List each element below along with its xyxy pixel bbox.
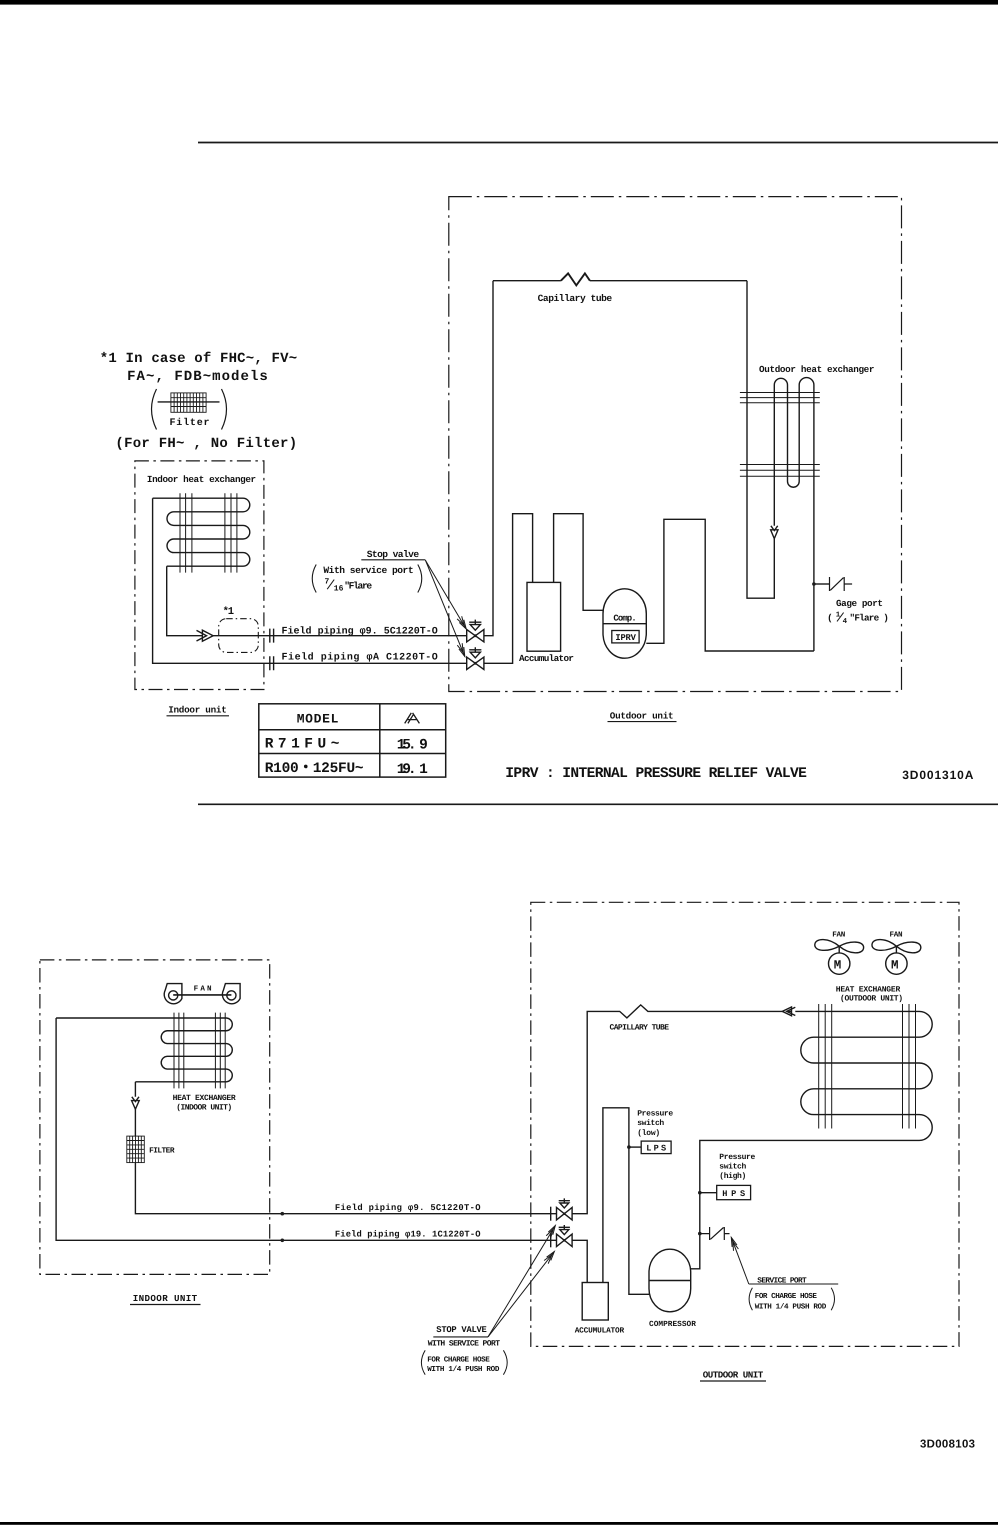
- gas pipe from coil to stop valve (upper figure): [153, 498, 467, 663]
- svg-text:FOR CHARGE HOSE: FOR CHARGE HOSE: [755, 1292, 818, 1301]
- top page border bar: [0, 0, 998, 5]
- filter legend hatched box: [171, 393, 206, 412]
- leader arrow to liquid stop valve (lower): [488, 1226, 555, 1337]
- outdoor unit label underline: [608, 721, 677, 723]
- svg-text:(OUTDOOR UNIT): (OUTDOOR UNIT): [840, 994, 903, 1003]
- model table row R71FU: [265, 737, 428, 754]
- flare tick liquid valve (lower): [550, 1207, 552, 1221]
- leader arrow to gas stop valve: [425, 560, 464, 656]
- IPRV text: [615, 633, 636, 643]
- indoor fan label: [194, 986, 212, 994]
- indoor unit dash-dot box (upper figure): [135, 461, 264, 690]
- compressor label (lower figure): [649, 1320, 696, 1329]
- section rule upper: [198, 142, 998, 144]
- IPRV box: [612, 631, 639, 643]
- flare joint ticks liquid line: [270, 629, 274, 643]
- with service port paren right: [418, 565, 422, 593]
- model table row R100-125FU: [265, 761, 428, 778]
- accumulator (upper figure): [527, 582, 561, 651]
- document number lower: [920, 1438, 975, 1450]
- stop valve note text: [427, 1355, 500, 1374]
- svg-text:1: 1: [836, 611, 841, 619]
- svg-text:(INDOOR UNIT): (INDOOR UNIT): [176, 1104, 232, 1113]
- accumulator (lower figure): [582, 1283, 608, 1321]
- svg-text:7: 7: [325, 578, 330, 587]
- gas pipe to accumulator (lower figure): [572, 1240, 587, 1282]
- svg-text:HEAT EXCHANGER: HEAT EXCHANGER: [173, 1094, 236, 1103]
- gage port label: [836, 598, 883, 609]
- indoor coil fins (lower figure): [174, 1013, 225, 1089]
- svg-text:MODEL: MODEL: [297, 712, 339, 727]
- svg-text:*1: *1: [223, 606, 235, 618]
- svg-text:WITH SERVICE PORT: WITH SERVICE PORT: [428, 1340, 500, 1349]
- svg-text:Outdoor unit: Outdoor unit: [610, 710, 674, 721]
- service port valve symbol: [698, 1227, 730, 1240]
- filter legend label: [170, 417, 210, 429]
- filter legend paren left: [152, 389, 157, 430]
- svg-text:Stop valve: Stop valve: [367, 549, 420, 560]
- stop valve label (upper figure): [367, 549, 420, 560]
- svg-text:Field piping φ9. 5C1220T-O: Field piping φ9. 5C1220T-O: [335, 1203, 481, 1213]
- svg-text:COMPRESSOR: COMPRESSOR: [649, 1320, 696, 1329]
- compressor label: [613, 613, 636, 623]
- indoor fan symbol: [164, 984, 240, 1004]
- svg-text:IPRV : INTERNAL PRESSURE RELIE: IPRV : INTERNAL PRESSURE RELIEF VALVE: [505, 766, 807, 782]
- outdoor fan 1: [815, 940, 864, 975]
- svg-text:M: M: [834, 958, 842, 972]
- gage port fraction slash: [837, 613, 844, 622]
- field piping gas label (lower figure): [335, 1230, 481, 1240]
- capillary tube label (lower figure): [610, 1024, 670, 1033]
- with service port paren left: [312, 565, 316, 593]
- capillary flow arrow: [782, 1007, 795, 1016]
- liquid stop valve (lower figure): [557, 1198, 573, 1220]
- svg-text:FAN: FAN: [832, 931, 845, 939]
- stop valve underline (lower figure): [433, 1336, 488, 1338]
- svg-text:OUTDOOR UNIT: OUTDOOR UNIT: [703, 1369, 764, 1380]
- svg-text:FILTER: FILTER: [149, 1147, 175, 1156]
- svg-text:"Flare: "Flare: [344, 580, 372, 591]
- svg-text:Filter: Filter: [170, 417, 210, 429]
- outdoor unit dash-dot box (lower figure): [531, 902, 959, 1346]
- service port leader arrow: [731, 1237, 749, 1284]
- outdoor heat exchanger coil (upper figure): [747, 281, 814, 651]
- indoor heat exchanger coil (upper figure): [153, 498, 250, 566]
- indoor coil fins (upper figure): [180, 493, 237, 572]
- gas stop valve (upper figure): [467, 647, 484, 669]
- HPS text: [722, 1189, 745, 1199]
- field piping liquid label (upper figure): [282, 626, 438, 638]
- svg-text:STOP VALVE: STOP VALVE: [436, 1325, 487, 1335]
- accumulator label (lower figure): [575, 1326, 625, 1335]
- outdoor unit dash-dot box (upper figure): [449, 197, 902, 692]
- model table header A symbol: [405, 713, 420, 724]
- svg-text:FOR CHARGE HOSE: FOR CHARGE HOSE: [427, 1355, 490, 1364]
- field piping liquid label (lower figure): [335, 1203, 481, 1213]
- capillary tube circuit to outdoor coil and compressor (lower figure): [572, 1005, 932, 1269]
- flare joint ticks gas line: [270, 656, 274, 670]
- outdoor unit label (lower figure): [703, 1369, 764, 1380]
- indoor heat exchanger label (lower figure): [173, 1094, 236, 1112]
- filter (lower figure): [127, 1136, 145, 1163]
- indoor unit label (upper figure): [168, 705, 227, 716]
- liquid stop valve (upper figure): [467, 620, 484, 642]
- outdoor heat exchanger label (upper figure): [759, 364, 875, 375]
- pressure switch low label: [637, 1110, 673, 1138]
- *1 dashed accessory box: [219, 619, 259, 653]
- discharge pipe compressor to outdoor coil: [646, 519, 814, 651]
- model table header MODEL: [297, 712, 339, 727]
- field piping gas label (upper figure): [282, 651, 438, 663]
- liquid pipe from coil to stop valve (upper figure): [167, 566, 467, 636]
- model table frame: [259, 704, 446, 777]
- svg-text:4: 4: [843, 618, 848, 626]
- gage port tee junction: [812, 582, 829, 586]
- filter legend pipe line: [158, 401, 220, 403]
- outdoor fan 2: [872, 940, 921, 975]
- svg-text:FAN: FAN: [890, 931, 903, 939]
- svg-text:Capillary tube: Capillary tube: [538, 293, 613, 304]
- bottom page border line: [0, 1522, 998, 1525]
- svg-text:HPS: HPS: [722, 1189, 745, 1199]
- svg-text:HEAT EXCHANGER: HEAT EXCHANGER: [836, 986, 901, 995]
- svg-text:FA~, FDB~models: FA~, FDB~models: [127, 369, 268, 385]
- svg-text:switch: switch: [719, 1162, 746, 1171]
- indoor heat exchanger coil (lower figure): [56, 1018, 232, 1082]
- section rule lower: [198, 803, 998, 805]
- svg-text:WITH 1/4 PUSH ROD: WITH 1/4 PUSH ROD: [427, 1365, 500, 1374]
- *1 marker: [223, 606, 235, 618]
- svg-text:(For FH~ , No Filter): (For FH~ , No Filter): [115, 436, 297, 452]
- outdoor fan 2 labels: [890, 931, 903, 972]
- svg-text:15. 9: 15. 9: [397, 737, 428, 753]
- indoor unit dash-dot box (lower figure): [40, 960, 270, 1275]
- svg-text:LPS: LPS: [646, 1144, 666, 1154]
- gage port valve symbol: [830, 577, 853, 591]
- service port label and underline: [757, 1276, 807, 1285]
- outdoor unit label (upper figure): [610, 710, 674, 721]
- svg-text:IPRV: IPRV: [615, 633, 636, 643]
- svg-text:(low): (low): [637, 1129, 660, 1138]
- svg-text:INDOOR UNIT: INDOOR UNIT: [133, 1293, 198, 1304]
- svg-text:16: 16: [334, 584, 344, 593]
- svg-text:Indoor unit: Indoor unit: [168, 705, 227, 716]
- svg-text:(high): (high): [719, 1172, 746, 1181]
- 7/16 flare text: [325, 578, 373, 594]
- compressor shell (lower figure): [649, 1249, 691, 1312]
- IPRV note: [505, 766, 807, 782]
- flow triangle on liquid pipe: [197, 630, 214, 641]
- leader arrow to liquid stop valve: [425, 560, 466, 629]
- svg-text:switch: switch: [637, 1119, 664, 1128]
- svg-text:*1 In case of FHC~, FV~: *1 In case of FHC~, FV~: [100, 351, 297, 367]
- service port note text: [755, 1292, 827, 1311]
- stop valve label underline: [361, 559, 425, 561]
- accumulator label (upper figure): [519, 653, 574, 664]
- filter legend paren right: [222, 389, 227, 430]
- indoor unit label (upper figure): [147, 474, 256, 485]
- svg-text:(: (: [827, 613, 833, 624]
- svg-text:ACCUMULATOR: ACCUMULATOR: [575, 1326, 625, 1335]
- svg-text:Field piping φ19. 1C1220T-O: Field piping φ19. 1C1220T-O: [335, 1230, 481, 1240]
- liquid downcomer with flow arrow: [132, 1082, 140, 1136]
- svg-text:3D001310A: 3D001310A: [902, 768, 974, 782]
- suction pipe accumulator to compressor: [554, 514, 603, 611]
- svg-text:Gage port: Gage port: [836, 598, 883, 609]
- gas line to accumulator: [484, 514, 533, 664]
- indoor unit label (lower figure): [133, 1293, 198, 1304]
- with service port text: [323, 565, 413, 576]
- indoor unit label underline: [167, 715, 230, 717]
- with service port text (lower figure): [428, 1340, 500, 1349]
- svg-text:Outdoor heat exchanger: Outdoor heat exchanger: [759, 364, 875, 375]
- LPS text: [646, 1144, 666, 1154]
- gas stop valve (lower figure): [557, 1225, 573, 1247]
- svg-text:Field piping φ9. 5C1220T-O: Field piping φ9. 5C1220T-O: [282, 626, 438, 638]
- filter label: [149, 1147, 175, 1156]
- svg-text:Pressure: Pressure: [637, 1110, 673, 1119]
- pressure switch high label: [719, 1153, 755, 1181]
- svg-text:Pressure: Pressure: [719, 1153, 755, 1162]
- capillary tube label (upper figure): [538, 293, 613, 304]
- svg-text:Indoor heat exchanger: Indoor heat exchanger: [147, 474, 256, 485]
- gas field piping line (lower figure): [56, 1018, 556, 1242]
- gage port flare note: [827, 611, 889, 625]
- svg-text:CAPILLARY TUBE: CAPILLARY TUBE: [610, 1024, 670, 1033]
- suction pipe to compressor (lower figure): [603, 1108, 649, 1295]
- stop valve note parens: [421, 1350, 507, 1374]
- note *1 text: [100, 351, 297, 452]
- svg-text:FAN: FAN: [194, 986, 212, 994]
- flare tick gas valve (lower): [550, 1233, 552, 1247]
- outdoor coil fins (lower figure): [819, 1004, 916, 1129]
- HPS pressure switch: [698, 1185, 751, 1199]
- liquid riser to capillary: [484, 281, 493, 636]
- svg-text:WITH 1/4 PUSH ROD: WITH 1/4 PUSH ROD: [755, 1302, 827, 1311]
- liquid field piping line (lower figure): [135, 1163, 556, 1216]
- svg-text:R71FU~: R71FU~: [265, 737, 340, 753]
- LPS pressure switch: [627, 1141, 671, 1154]
- indoor unit underline (lower figure): [130, 1304, 201, 1306]
- svg-text:Comp.: Comp.: [613, 613, 636, 623]
- svg-text:Field piping φA C1220T-O: Field piping φA C1220T-O: [282, 651, 438, 663]
- outdoor heat exchanger label (lower figure): [836, 986, 903, 1004]
- svg-text:R100・125FU~: R100・125FU~: [265, 761, 364, 777]
- outdoor coil fins (upper figure): [740, 393, 820, 477]
- outdoor fan 1 labels: [832, 931, 845, 972]
- stop valve label block (lower figure): [436, 1325, 487, 1335]
- svg-text:M: M: [891, 958, 899, 972]
- capillary tube line with zigzag (upper figure): [493, 273, 747, 285]
- document number upper: [902, 768, 974, 782]
- svg-text:3D008103: 3D008103: [920, 1438, 975, 1450]
- 7/16 slash: [327, 580, 334, 590]
- service port note parens: [749, 1288, 834, 1310]
- svg-text:With service port: With service port: [323, 565, 413, 576]
- svg-text:Accumulator: Accumulator: [519, 653, 574, 664]
- compressor shell (upper figure): [603, 589, 646, 658]
- leader arrow to gas stop valve (lower): [488, 1252, 554, 1337]
- flow arrow on condenser outlet: [771, 526, 778, 539]
- outdoor unit underline (lower figure): [700, 1380, 766, 1382]
- svg-text:"Flare ): "Flare ): [850, 613, 889, 624]
- svg-text:19. 1: 19. 1: [397, 762, 428, 778]
